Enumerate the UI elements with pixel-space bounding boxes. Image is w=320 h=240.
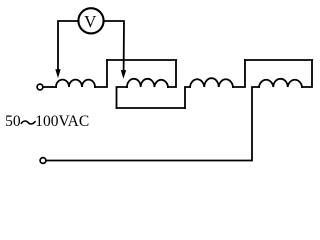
- voltmeter M1 circle: [78, 8, 103, 33]
- wire L1 right to top rail A: [95, 60, 107, 87]
- wire top rail A: [107, 59, 176, 61]
- inductor L1: [56, 80, 95, 87]
- wire voltmeter right lead: [104, 21, 124, 71]
- wire top rail C: [245, 59, 312, 61]
- wire L2 left end down: [117, 87, 128, 108]
- probe arrowhead right: [121, 70, 126, 79]
- inductor L3: [190, 78, 233, 87]
- wire rail A down to L2 right end: [168, 60, 176, 87]
- terminal T1 input top: [37, 84, 43, 90]
- wire L4 left end down to bottom rail: [46, 87, 259, 161]
- wire T1 to L1: [43, 86, 56, 88]
- label 50: [5, 113, 21, 131]
- inductor L4: [259, 79, 302, 87]
- wire rail C down to L4 right end: [302, 60, 312, 87]
- label 100VAC: [35, 113, 89, 131]
- wire lower rail B: [117, 107, 186, 109]
- probe arrowhead left: [55, 69, 60, 78]
- inductor L2: [127, 79, 168, 87]
- wire voltmeter left lead: [58, 21, 78, 70]
- wire L3 right to top rail C: [233, 60, 245, 87]
- svg-text:V: V: [84, 12, 97, 31]
- terminal T2 input bottom: [40, 158, 46, 164]
- tilde of label 50~100VAC: [21, 121, 35, 124]
- wire rail B up to L3 left end: [185, 87, 190, 108]
